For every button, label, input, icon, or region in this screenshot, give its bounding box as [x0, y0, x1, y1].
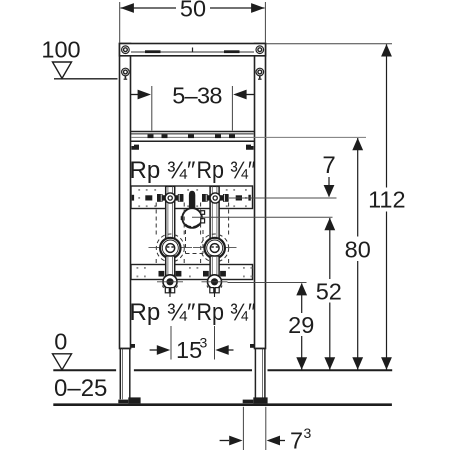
screw mid-left [122, 68, 130, 79]
leg left [118, 344, 140, 403]
svg-text:0: 0 [54, 329, 67, 355]
screw top-left [122, 46, 130, 54]
dimension 15.3 [150, 326, 234, 363]
svg-text:15: 15 [176, 337, 202, 363]
dimension 7 vertical [322, 152, 335, 197]
svg-text:Rp ¾″: Rp ¾″ [197, 157, 256, 184]
dimension 7.3 [220, 407, 312, 450]
frame top crossbar [120, 44, 266, 56]
label Rp 3/4 upper row [130, 157, 256, 184]
valve left [145, 193, 183, 203]
svg-text:52: 52 [316, 279, 342, 305]
svg-text:5–38: 5–38 [172, 83, 222, 109]
dashed center zone [186, 230, 204, 254]
plate screw dots lower [137, 267, 253, 277]
elbow right [202, 271, 228, 297]
plate screw dots upper [138, 189, 247, 207]
dimension 5-38 [131, 83, 254, 131]
reference line elbow (29) [228, 282, 307, 284]
level mark 0 [53, 329, 72, 370]
elbow left [157, 271, 183, 297]
pipe right lower [210, 256, 219, 276]
frame rail right [255, 44, 266, 349]
reference line drain (52) [192, 216, 333, 218]
level mark 100 [41, 37, 117, 79]
svg-text:80: 80 [345, 237, 371, 263]
upper mounting plate [131, 186, 253, 209]
svg-text:Rp ¾″: Rp ¾″ [130, 299, 196, 326]
floor line level 0 [53, 369, 392, 371]
dimension 50 top [120, 0, 266, 43]
label 0-25 [54, 375, 107, 402]
label Rp 3/4 lower row [130, 299, 256, 326]
svg-text:0–25: 0–25 [54, 375, 107, 402]
flange left [149, 238, 193, 258]
svg-text:Rp ¾″: Rp ¾″ [130, 157, 196, 184]
reference line valve (7) [229, 197, 337, 199]
bracket right below rail [246, 145, 254, 150]
dashed install zone left [156, 203, 184, 269]
center fitting plug [189, 191, 195, 209]
svg-text:100: 100 [41, 37, 80, 63]
mounting rail (80 cm rail) [131, 132, 366, 142]
screw mid-right [256, 68, 264, 79]
svg-text:112: 112 [368, 187, 405, 213]
pipe right upper [210, 186, 219, 244]
dimension 29 vertical [288, 283, 314, 370]
frame rail left [120, 44, 131, 349]
pipe left upper [166, 186, 175, 244]
dashed install zone right [201, 203, 229, 269]
floor line raw [53, 403, 392, 406]
dimension 112 vertical [368, 44, 405, 370]
svg-text:Rp ¾″: Rp ¾″ [197, 299, 256, 326]
screw top-right [256, 46, 264, 54]
lower mounting plate [131, 265, 253, 280]
svg-text:3: 3 [304, 425, 312, 441]
dimension 52 vertical [316, 218, 342, 370]
bracket left below rail [132, 145, 140, 150]
drain trap circle [181, 208, 205, 228]
pipe left lower [166, 256, 175, 276]
svg-text:50: 50 [180, 0, 206, 22]
svg-text:7: 7 [290, 428, 303, 450]
reference line rail (80) [0, 0, 1, 1]
dimension 80 vertical [345, 138, 371, 370]
valve right [202, 193, 242, 203]
svg-text:7: 7 [322, 152, 335, 179]
leg right [243, 344, 268, 403]
reference line top (112) [266, 43, 392, 45]
flange right [193, 238, 237, 258]
svg-text:3: 3 [200, 335, 208, 351]
svg-text:29: 29 [288, 312, 314, 338]
